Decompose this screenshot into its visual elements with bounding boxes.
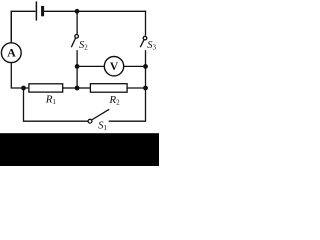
switch S2 bbox=[72, 35, 79, 47]
wire top-left: from left corner to battery bbox=[11, 11, 35, 43]
switch S1 bbox=[88, 110, 109, 124]
wire left branch lower: ammeter down to R1 row bbox=[11, 63, 29, 88]
wire right branch: V-row node down to R-row node bbox=[145, 66, 147, 88]
battery bbox=[36, 2, 42, 20]
resistor R2 bbox=[90, 84, 127, 93]
wire bottom loop right: from S1 to right branch and up bbox=[109, 88, 145, 121]
node top (S2 branch tap) bbox=[75, 9, 80, 14]
wire voltmeter row left bbox=[77, 65, 104, 67]
svg-text:A: A bbox=[7, 45, 16, 59]
switch S3 bbox=[141, 36, 147, 46]
wire bottom loop left: down from left node and along bottom bbox=[24, 88, 89, 121]
wire R1 to mid node bbox=[63, 87, 77, 89]
node R-row left bbox=[21, 86, 26, 91]
wire right branch upper: top corner down to switch S3 bbox=[145, 11, 147, 35]
wire mid node to R2 bbox=[77, 87, 90, 89]
wire top: battery to top-right corner bbox=[44, 10, 145, 12]
node R-row right bbox=[143, 86, 148, 91]
wire R2 to right node bbox=[127, 87, 145, 89]
node R-row mid bbox=[75, 86, 80, 91]
wire left branch: top corner down to ammeter bbox=[10, 11, 12, 43]
wire right branch: below S3 down to V-row node bbox=[145, 51, 147, 67]
node V-right bbox=[143, 64, 148, 69]
wire S2 branch: V-row node down to R-row node bbox=[76, 66, 78, 88]
voltmeter V bbox=[104, 56, 123, 75]
ammeter A bbox=[1, 43, 21, 63]
wire voltmeter row right bbox=[124, 65, 146, 67]
resistor R1 bbox=[29, 84, 63, 92]
node V-left bbox=[75, 64, 80, 69]
wire S2 branch top: from top node down to switch S2 bbox=[76, 11, 78, 35]
svg-text:V: V bbox=[110, 61, 119, 73]
wire S2 branch: below S2 down to V-row node bbox=[76, 51, 78, 67]
